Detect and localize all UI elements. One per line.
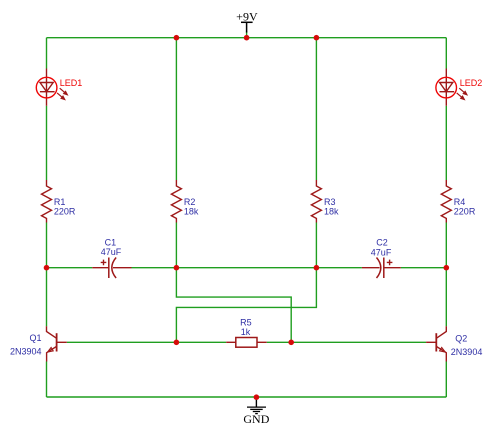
svg-text:Q2: Q2 xyxy=(455,333,467,343)
svg-text:R2: R2 xyxy=(184,197,196,207)
wire cross link B xyxy=(176,268,316,343)
wire base row left xyxy=(67,341,226,343)
resistor R4 xyxy=(441,180,476,223)
junction GND xyxy=(254,394,260,400)
resistor R5 xyxy=(226,318,267,348)
wire right rail R4-caprow xyxy=(445,223,447,268)
wire left rail caprow-Q1 xyxy=(46,268,48,327)
junction +9V xyxy=(244,35,250,41)
svg-text:LED2: LED2 xyxy=(460,78,483,88)
wire +9V pin xyxy=(246,32,248,38)
wire R2 rail upper xyxy=(175,38,177,180)
power +9V xyxy=(236,10,258,33)
svg-text:220R: 220R xyxy=(454,207,476,217)
wire cross link A xyxy=(176,268,291,343)
svg-text:R4: R4 xyxy=(454,197,466,207)
wire right rail upper xyxy=(445,38,447,69)
junction cap row C2 xyxy=(314,265,320,271)
resistor R2 xyxy=(171,180,199,223)
svg-text:LED1: LED1 xyxy=(60,78,83,88)
wire right rail caprow-Q2 xyxy=(445,268,447,327)
transistor Q2 xyxy=(426,326,482,361)
svg-text:2N3904: 2N3904 xyxy=(10,347,42,357)
junction top R2 xyxy=(174,35,180,41)
junction base row left xyxy=(174,340,180,346)
junction base row right xyxy=(288,340,294,346)
transistor Q1 xyxy=(10,326,67,361)
svg-text:R1: R1 xyxy=(54,197,66,207)
junction top R3 xyxy=(314,35,320,41)
LED LED2 xyxy=(436,69,482,106)
ground GND xyxy=(243,397,269,426)
junction cap row C1 xyxy=(174,265,180,271)
junction cap row left xyxy=(44,265,50,271)
svg-text:R5: R5 xyxy=(240,318,252,328)
wire R3 rail lower xyxy=(315,223,317,268)
resistor R3 xyxy=(311,180,339,223)
wire left rail LED1-R1 xyxy=(46,106,48,180)
svg-text:2N3904: 2N3904 xyxy=(451,347,483,357)
wire bottom rail xyxy=(47,396,447,398)
wire right rail LED2-R4 xyxy=(445,106,447,180)
svg-text:GND: GND xyxy=(243,412,269,426)
wire Q2 emitter down xyxy=(445,362,447,398)
svg-text:R3: R3 xyxy=(324,197,336,207)
svg-text:1k: 1k xyxy=(241,327,251,337)
LED LED1 xyxy=(36,69,82,106)
wire top rail xyxy=(47,37,447,39)
svg-text:47uF: 47uF xyxy=(101,247,122,257)
wire left rail R1-caprow xyxy=(46,223,48,268)
svg-text:220R: 220R xyxy=(54,207,76,217)
capacitor C2 xyxy=(362,238,401,278)
junction cap row right xyxy=(444,265,450,271)
wire cap row left xyxy=(47,267,93,269)
wire base row right xyxy=(267,341,426,343)
resistor R1 xyxy=(42,180,76,223)
svg-text:+9V: +9V xyxy=(236,10,258,24)
svg-text:18k: 18k xyxy=(184,207,199,217)
capacitor C1 xyxy=(92,238,131,278)
svg-text:18k: 18k xyxy=(324,207,339,217)
wire Q1 emitter down xyxy=(46,362,48,398)
wire cap row center xyxy=(132,267,362,269)
wire R2 rail lower xyxy=(175,223,177,268)
svg-text:C2: C2 xyxy=(376,238,388,248)
wire left rail upper xyxy=(46,38,48,69)
svg-text:47uF: 47uF xyxy=(371,247,392,257)
wire R3 rail upper xyxy=(315,38,317,180)
wire cap row right xyxy=(401,267,447,269)
svg-text:Q1: Q1 xyxy=(30,333,42,343)
